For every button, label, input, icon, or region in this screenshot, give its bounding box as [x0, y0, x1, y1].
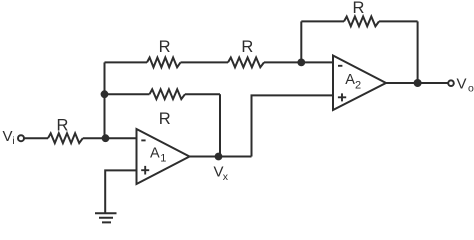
svg-text:V: V — [3, 128, 13, 145]
svg-text:o: o — [468, 82, 474, 94]
label R (input resistor) — [57, 116, 69, 134]
wire A1 output — [190, 156, 252, 158]
svg-text:R: R — [352, 0, 364, 17]
node top junction — [297, 59, 305, 67]
wire A2 output — [386, 82, 448, 84]
label R (top left resistor) — [159, 38, 171, 56]
svg-text:R: R — [57, 116, 69, 134]
svg-text:2: 2 — [355, 80, 361, 92]
ground — [95, 213, 117, 222]
wire down to Vx node — [219, 94, 221, 156]
wire up to feedback row — [300, 21, 302, 62]
resistor R (row2) — [150, 89, 186, 99]
wire feedback left — [301, 20, 344, 22]
wire to A2 inverting input — [264, 61, 333, 63]
label A2 — [345, 72, 361, 92]
node Vx — [215, 153, 223, 161]
svg-text:V: V — [457, 76, 467, 93]
svg-text:A: A — [345, 72, 355, 88]
op-amp A1 — [137, 129, 190, 184]
plus sign A1 — [141, 166, 149, 175]
terminal Vo — [448, 80, 454, 86]
wire Vi to R — [24, 137, 48, 139]
label R (feedback resistor) — [352, 0, 364, 17]
label Vi — [3, 128, 15, 147]
wire A1 plus input to ground — [105, 170, 136, 212]
wire between top resistors — [181, 61, 229, 63]
svg-text:x: x — [223, 171, 229, 183]
wire top row left — [105, 61, 148, 63]
wire R to A1 inverting input — [83, 137, 137, 139]
wire row2 left — [105, 93, 150, 95]
resistor R (feedback) — [344, 17, 379, 27]
wire row2 right — [185, 93, 220, 95]
label R (row2 resistor) — [159, 110, 171, 128]
plus sign A2 — [338, 93, 346, 101]
node row2 junction — [101, 90, 109, 98]
svg-text:R: R — [159, 110, 171, 128]
label A1 — [150, 146, 166, 165]
svg-text:1: 1 — [160, 153, 166, 165]
wire Vx up to A2 plus input — [252, 95, 334, 156]
svg-text:i: i — [12, 135, 14, 147]
minus sign A2 — [338, 65, 342, 67]
svg-text:R: R — [241, 38, 253, 56]
op-amp A2 — [333, 56, 386, 111]
terminal Vi — [18, 135, 24, 141]
node output junction — [414, 79, 422, 87]
wire feedback right — [379, 20, 418, 22]
svg-text:A: A — [150, 146, 160, 162]
wire vertical bus — [104, 62, 106, 138]
label R (top right resistor) — [241, 38, 253, 56]
svg-text:R: R — [159, 38, 171, 56]
resistor R (top right) — [228, 58, 264, 68]
resistor R (input) — [48, 133, 83, 143]
label Vx — [214, 163, 229, 183]
label Vo — [457, 76, 474, 95]
node input junction — [102, 134, 110, 142]
minus sign A1 — [141, 139, 145, 141]
wire down to output node — [417, 21, 419, 83]
resistor R (top left) — [147, 58, 181, 68]
